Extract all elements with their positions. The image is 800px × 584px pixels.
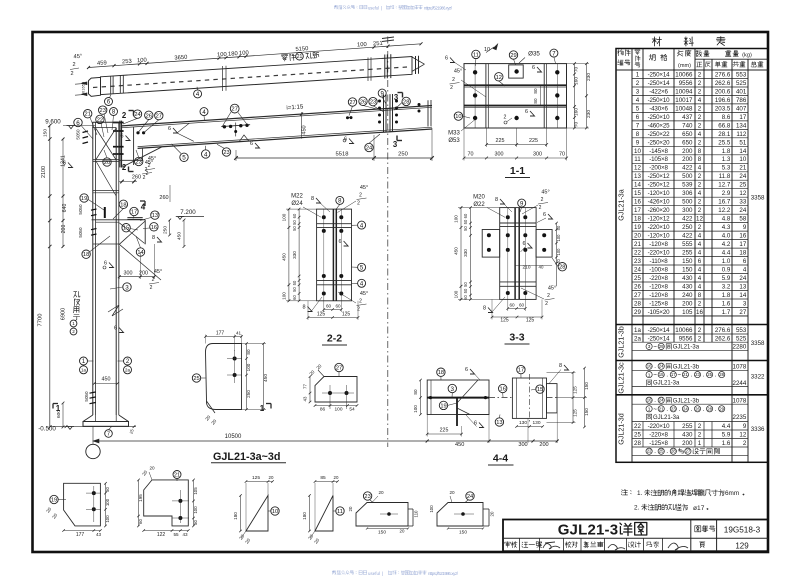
svg-text:27: 27 [739, 309, 746, 316]
plate 25 outline [206, 344, 242, 410]
dim 300 200 below bracket [119, 276, 154, 278]
splice bolts [378, 100, 381, 103]
svg-text:M33: M33 [448, 131, 460, 137]
2-2 bottom band [317, 279, 352, 281]
svg-text:100: 100 [246, 363, 251, 371]
svg-text:2: 2 [698, 173, 702, 180]
svg-text:1.6: 1.6 [722, 300, 731, 307]
section divider after b [616, 360, 768, 362]
dim 450 at column bottom [94, 383, 117, 385]
svg-text:110: 110 [414, 510, 419, 518]
svg-text:195: 195 [138, 494, 143, 502]
3-3 center flange lines [514, 208, 516, 300]
svg-text:401: 401 [736, 88, 747, 95]
bolts near right end [418, 103, 421, 106]
svg-text:422: 422 [682, 216, 693, 223]
svg-text:-250×12: -250×12 [648, 173, 671, 180]
svg-text:1.: 1. [637, 490, 643, 497]
svg-text:6: 6 [532, 65, 535, 71]
svg-text:-220×10: -220×10 [648, 250, 671, 257]
svg-text:19: 19 [440, 403, 446, 409]
svg-text:4.4: 4.4 [722, 250, 731, 257]
svg-text:2: 2 [545, 301, 548, 307]
svg-text:8: 8 [152, 235, 155, 241]
svg-text:160: 160 [574, 77, 580, 85]
svg-text:125: 125 [573, 386, 578, 394]
svg-text:3.2: 3.2 [722, 283, 731, 290]
svg-text:2-2: 2-2 [327, 333, 342, 345]
section c rows [646, 363, 652, 369]
svg-text:1a: 1a [634, 327, 641, 334]
svg-text:77: 77 [303, 384, 308, 389]
svg-text:50: 50 [82, 82, 86, 86]
3-3 circle 28 [558, 263, 566, 271]
bracket circles [80, 194, 88, 202]
svg-text:80: 80 [533, 98, 538, 104]
dim line 10500 [93, 440, 557, 442]
svg-text:100: 100 [357, 42, 367, 49]
svg-text:125: 125 [342, 312, 351, 318]
svg-text:230: 230 [586, 110, 592, 118]
svg-text:-460×25: -460×25 [648, 122, 671, 129]
svg-text:24: 24 [634, 267, 641, 274]
2-2 circle 8 [336, 196, 344, 204]
4-4 bolt marks on web [429, 396, 432, 399]
svg-text:6: 6 [465, 367, 468, 373]
svg-text:29: 29 [719, 406, 724, 411]
svg-text:~: ~ [653, 373, 657, 379]
4-4 dims 130 130 [517, 426, 543, 428]
svg-text:130: 130 [532, 420, 540, 426]
svg-text:-125×8: -125×8 [649, 440, 668, 447]
svg-text:100: 100 [556, 248, 561, 256]
svg-text:300: 300 [495, 152, 504, 158]
plate 10 left dim 180 [240, 496, 242, 532]
svg-text:407: 407 [736, 105, 747, 112]
svg-text:6: 6 [525, 109, 528, 115]
svg-text:10500: 10500 [225, 434, 242, 440]
svg-text:15: 15 [537, 387, 543, 393]
circles 1 2 1a 2a at column bottom [80, 357, 88, 365]
svg-text:8: 8 [698, 156, 702, 163]
section divider after a [632, 315, 748, 317]
svg-text:1.3: 1.3 [722, 156, 731, 163]
svg-text:2: 2 [698, 105, 702, 112]
svg-text:GJL21-3c: GJL21-3c [617, 362, 626, 394]
svg-text:23: 23 [223, 150, 229, 156]
watermark bottom [332, 571, 459, 577]
svg-text:1341: 1341 [61, 155, 67, 167]
column cap plate [92, 121, 121, 123]
svg-text:28: 28 [634, 300, 641, 307]
svg-text:2.: 2. [634, 505, 640, 512]
svg-text:GJL21-3b: GJL21-3b [673, 364, 700, 370]
svg-text:300: 300 [518, 442, 527, 448]
svg-text:26: 26 [146, 113, 152, 119]
svg-text:20: 20 [348, 506, 353, 511]
top beam bolt line at x370 [367, 58, 369, 82]
plate 27 circle [335, 363, 343, 371]
splice at right end of main beam [383, 95, 385, 133]
3-3 top band [500, 222, 536, 224]
svg-text:-120×8: -120×8 [649, 283, 668, 290]
svg-text:GJL21-3a: GJL21-3a [673, 345, 700, 351]
3-3 bottom dims 125 125 [492, 316, 542, 318]
svg-text:262.6: 262.6 [715, 335, 731, 342]
svg-text:9556: 9556 [679, 335, 693, 342]
circles 27 26 23 at splice [348, 98, 356, 106]
svg-text:3: 3 [743, 300, 747, 307]
svg-text:60: 60 [519, 303, 525, 308]
svg-text:180: 180 [233, 512, 238, 520]
svg-text:20: 20 [449, 490, 455, 495]
svg-text:24: 24 [739, 173, 746, 180]
svg-text:27: 27 [634, 292, 641, 299]
svg-text:2: 2 [698, 207, 702, 214]
svg-text:4: 4 [698, 97, 702, 104]
svg-text:60: 60 [326, 304, 332, 309]
svg-text:GJL21-3a: GJL21-3a [653, 381, 680, 387]
svg-text:450: 450 [302, 125, 308, 134]
svg-text:4: 4 [698, 190, 702, 197]
svg-text:150: 150 [584, 382, 589, 390]
svg-text:29: 29 [634, 309, 641, 316]
svg-text:200: 200 [682, 440, 693, 447]
svg-text:2: 2 [122, 163, 127, 172]
svg-text:250: 250 [246, 390, 251, 398]
svg-text:8: 8 [698, 292, 702, 299]
plate 24 outline [437, 503, 483, 527]
dim 600 left [62, 403, 64, 427]
dim 250 450 right of bracket [169, 220, 171, 235]
svg-text:2: 2 [698, 300, 702, 307]
svg-text:105: 105 [682, 309, 693, 316]
circle 5 below beam [180, 153, 188, 161]
svg-text:4.3: 4.3 [722, 224, 731, 231]
svg-text:-260×20: -260×20 [648, 207, 671, 214]
svg-text:300: 300 [533, 152, 542, 158]
svg-text:240: 240 [682, 292, 693, 299]
svg-text:177: 177 [76, 532, 85, 538]
1-1 hole detail box [509, 65, 524, 78]
svg-text:27: 27 [336, 366, 342, 372]
svg-text:2: 2 [72, 62, 75, 68]
plate 19 circle [50, 495, 58, 503]
svg-text:4: 4 [698, 250, 702, 257]
svg-text:2: 2 [72, 329, 75, 334]
svg-text:100: 100 [413, 405, 418, 413]
svg-text:200: 200 [682, 300, 693, 307]
signature 1 [543, 542, 560, 549]
svg-text:276.6: 276.6 [715, 71, 731, 78]
plate 11 top dims 85 20 [315, 481, 338, 483]
note text line 1 [621, 489, 627, 495]
svg-text:105: 105 [193, 487, 198, 495]
beam right end piece [427, 100, 429, 126]
svg-text:24: 24 [659, 398, 664, 403]
svg-text:160: 160 [574, 108, 580, 116]
svg-text:3650: 3650 [174, 55, 187, 62]
svg-text:4: 4 [698, 267, 702, 274]
top beam weld arrows left [82, 82, 88, 85]
svg-text:3-3: 3-3 [509, 332, 524, 344]
bracket leaders [88, 200, 104, 211]
svg-text:28: 28 [671, 449, 676, 454]
svg-text:210: 210 [522, 264, 530, 270]
svg-text:20: 20 [490, 511, 495, 516]
beam web stiffener vertical [133, 127, 135, 165]
svg-text:2: 2 [450, 85, 453, 91]
svg-text:2: 2 [698, 88, 702, 95]
svg-text:43: 43 [182, 532, 188, 537]
watermark top [334, 5, 453, 10]
svg-text:2: 2 [452, 77, 455, 83]
circle 28 right of splice [402, 97, 410, 105]
svg-text:2: 2 [698, 114, 702, 121]
svg-text:41: 41 [236, 330, 242, 335]
head circles labels [74, 118, 82, 126]
svg-text:7: 7 [636, 122, 640, 129]
svg-text:23: 23 [100, 108, 106, 114]
svg-text:2: 2 [70, 71, 73, 77]
svg-text:25: 25 [193, 376, 199, 382]
svg-text:2a: 2a [634, 335, 641, 342]
svg-text:17: 17 [739, 114, 746, 121]
svg-text:1a: 1a [81, 367, 86, 372]
plate 21 left dims 195 60 [138, 480, 140, 526]
svg-text:100: 100 [334, 407, 342, 413]
svg-text:21: 21 [683, 372, 688, 377]
main beam bottom flange [138, 129, 432, 148]
plate 23 outline [356, 503, 408, 527]
svg-text:50: 50 [463, 282, 468, 287]
plate 23 circle [363, 492, 371, 500]
svg-text:26: 26 [360, 99, 366, 105]
svg-text:11.8: 11.8 [719, 173, 731, 180]
svg-text:10048: 10048 [675, 105, 693, 112]
svg-text:450: 450 [455, 442, 464, 448]
svg-text:27: 27 [349, 100, 355, 106]
svg-text:450: 450 [454, 247, 459, 255]
svg-text:2: 2 [539, 205, 542, 211]
svg-text:16: 16 [647, 364, 652, 369]
svg-text:23: 23 [364, 494, 370, 500]
4-4 brace diagonal [457, 380, 478, 403]
svg-text:24: 24 [683, 406, 688, 411]
svg-text:2: 2 [698, 199, 702, 206]
svg-text:4: 4 [698, 275, 702, 282]
svg-text:100: 100 [239, 50, 249, 57]
svg-text:23: 23 [634, 258, 641, 265]
material table title 材料表 [652, 37, 661, 46]
plate 25 top dims 177 41 [206, 336, 242, 338]
svg-text:18: 18 [120, 202, 126, 208]
svg-text:28: 28 [559, 265, 565, 271]
4-4 left dims 80 100 [420, 380, 422, 415]
4-4 right box centerline [529, 374, 531, 422]
svg-text:500: 500 [682, 199, 693, 206]
svg-text:28: 28 [403, 99, 409, 105]
svg-text:650: 650 [682, 131, 693, 138]
axis line and bubble [92, 426, 94, 444]
svg-text:150: 150 [43, 129, 49, 137]
plate 11 triangle [315, 496, 333, 532]
svg-text:70: 70 [559, 152, 565, 158]
svg-text:24: 24 [467, 494, 473, 500]
svg-text:525: 525 [736, 335, 747, 342]
2-2 bottom dims 125 125 [308, 317, 358, 319]
svg-text:nttps;//521986.xyz/: nttps;//521986.xyz/ [428, 571, 459, 576]
svg-text:2a: 2a [125, 367, 130, 372]
plate 25 circle [192, 374, 200, 382]
svg-text:2: 2 [547, 293, 550, 299]
svg-text:5.9: 5.9 [722, 432, 731, 439]
svg-text:12: 12 [634, 165, 641, 172]
svg-text:6: 6 [168, 126, 171, 132]
haunch below beam [142, 148, 144, 160]
svg-text:-250×12: -250×12 [648, 182, 671, 189]
svg-text:-250×10: -250×10 [648, 114, 671, 121]
label 零件(21)孔距 [281, 54, 295, 61]
title block row divider [503, 537, 768, 539]
svg-text:-100×8: -100×8 [649, 267, 668, 274]
svg-text:17: 17 [671, 372, 676, 377]
svg-text:2: 2 [148, 163, 151, 169]
svg-text:-430×6: -430×6 [649, 105, 668, 112]
svg-text:4.8: 4.8 [722, 216, 731, 223]
svg-text:2: 2 [698, 182, 702, 189]
svg-text:1: 1 [636, 71, 640, 78]
4-4 bracket drop [456, 398, 458, 426]
svg-text:250: 250 [682, 224, 693, 231]
3-3 right dims [556, 223, 558, 286]
svg-text:60: 60 [463, 295, 468, 300]
svg-text:2: 2 [743, 440, 747, 447]
svg-text:2244: 2244 [733, 380, 747, 387]
svg-text:150: 150 [378, 530, 386, 536]
svg-text:26: 26 [695, 406, 700, 411]
2-2 center flange lines [332, 209, 334, 301]
4-4 dashed centerline [489, 397, 512, 399]
column left flange [92, 122, 94, 415]
bottom row cells [519, 538, 521, 551]
svg-text:150: 150 [682, 258, 693, 265]
svg-text:5.3: 5.3 [722, 165, 731, 172]
svg-text:2: 2 [122, 111, 127, 120]
svg-text:43: 43 [303, 396, 308, 401]
svg-text:9: 9 [743, 423, 747, 430]
svg-text:-426×10: -426×10 [648, 199, 671, 206]
svg-text:54: 54 [349, 407, 355, 413]
svg-text:14: 14 [739, 148, 746, 155]
2-2 bolts [322, 215, 326, 219]
svg-text:1: 1 [648, 407, 651, 413]
svg-text:2: 2 [698, 335, 702, 342]
svg-text:2: 2 [150, 285, 153, 291]
svg-text:-250×22: -250×22 [648, 131, 671, 138]
svg-text:21: 21 [739, 165, 746, 172]
svg-text:23: 23 [671, 406, 676, 411]
svg-text:130: 130 [519, 420, 527, 426]
top beam bolt line at x222 [222, 66, 224, 91]
svg-text:19G518-3: 19G518-3 [724, 526, 761, 535]
svg-text:553: 553 [736, 71, 747, 78]
svg-text:1.8: 1.8 [722, 292, 731, 299]
plate 10 circle [271, 507, 279, 515]
bolt bar near 19 [104, 207, 106, 218]
svg-text:262.6: 262.6 [715, 80, 731, 87]
svg-text:8: 8 [636, 131, 640, 138]
svg-text:2: 2 [504, 115, 507, 121]
4-4 web line [427, 397, 489, 399]
svg-text:6: 6 [522, 241, 525, 247]
material table outer box [616, 49, 768, 463]
svg-text:GJL21-3a~3d: GJL21-3a~3d [213, 451, 281, 463]
svg-text:50: 50 [82, 91, 86, 95]
svg-text:422: 422 [682, 165, 693, 172]
top beam splice plates right [384, 55, 386, 79]
svg-text:180: 180 [228, 51, 238, 58]
section 1-1 outer plan rect [464, 64, 567, 128]
450 beam height dim [301, 112, 303, 139]
svg-text:6900: 6900 [61, 308, 67, 320]
bracket diagonal [119, 221, 145, 244]
svg-text:6: 6 [104, 261, 107, 267]
svg-text:ø17: ø17 [693, 505, 705, 512]
svg-text:20: 20 [149, 466, 155, 471]
circle 23 lower head [135, 157, 143, 165]
svg-text:459: 459 [97, 60, 107, 67]
svg-text:22: 22 [97, 117, 103, 123]
4-4 left rect [427, 380, 489, 415]
svg-text:16: 16 [500, 387, 506, 393]
3-3 bolt dashes [507, 208, 509, 299]
svg-text:430: 430 [682, 275, 693, 282]
svg-text:4: 4 [636, 97, 640, 104]
plate 10 triangle [246, 496, 268, 532]
svg-text:45°: 45° [454, 69, 462, 75]
svg-text:GJL21-3b: GJL21-3b [617, 326, 626, 358]
svg-text:43: 43 [96, 532, 102, 537]
svg-text:25.5: 25.5 [718, 139, 731, 146]
svg-text:6mm: 6mm [725, 490, 739, 497]
svg-text:740: 740 [682, 122, 693, 129]
svg-text:330: 330 [292, 251, 297, 259]
svg-text:16: 16 [151, 225, 157, 231]
svg-text:0.9: 0.9 [722, 267, 731, 274]
svg-text:4: 4 [698, 241, 702, 248]
svg-text:17: 17 [518, 368, 524, 374]
svg-text:15: 15 [634, 190, 641, 197]
svg-text:GJL21-3d: GJL21-3d [617, 413, 626, 445]
seat bolts [136, 131, 139, 134]
svg-text:-220×8: -220×8 [649, 432, 668, 439]
svg-text:70: 70 [574, 67, 580, 73]
svg-text:21: 21 [85, 112, 91, 118]
svg-text:21: 21 [634, 241, 641, 248]
1-1 bolt center verticals [474, 64, 476, 128]
svg-text:40: 40 [539, 264, 544, 269]
svg-text:45°: 45° [73, 54, 82, 61]
svg-text:-120×8: -120×8 [649, 241, 668, 248]
svg-text:25: 25 [739, 182, 746, 189]
svg-text:100: 100 [556, 234, 561, 242]
svg-text:15: 15 [659, 372, 664, 377]
1-1 bottom dims 70 300 300 70 [464, 157, 567, 159]
svg-text:~: ~ [678, 373, 682, 379]
svg-text:80: 80 [533, 88, 538, 94]
1-1 bottom dims 225 225 [487, 144, 547, 146]
